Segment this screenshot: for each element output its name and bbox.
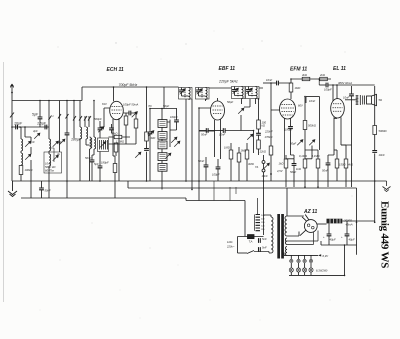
resistor 12k col B bbox=[269, 146, 273, 155]
shield box bbox=[44, 152, 62, 173]
svg-text:kΩ: kΩ bbox=[262, 124, 265, 128]
rail y85 bbox=[319, 84, 326, 86]
switch contact x67 bbox=[66, 114, 69, 119]
cap 180pF bbox=[288, 127, 293, 129]
heater rail 6,3V bbox=[284, 254, 318, 256]
svg-text:50nF: 50nF bbox=[322, 169, 328, 173]
svg-text:50pF: 50pF bbox=[227, 100, 233, 104]
rail IF y87 bbox=[82, 86, 179, 88]
svg-text:40kΩ: 40kΩ bbox=[111, 132, 117, 136]
svg-text:180pF: 180pF bbox=[285, 128, 293, 132]
svg-text:1,6pF: 1,6pF bbox=[37, 122, 47, 126]
scan specks bbox=[40, 31, 371, 321]
svg-text:EFM 11: EFM 11 bbox=[290, 67, 307, 73]
svg-text:50nF 4Ω: 50nF 4Ω bbox=[45, 165, 55, 169]
svg-text:5000Ω: 5000Ω bbox=[379, 129, 387, 133]
ground rail y181 bbox=[12, 180, 387, 182]
svg-text:5nF: 5nF bbox=[262, 237, 267, 241]
tube ECH11 bbox=[110, 101, 124, 119]
antenna coil L2 bbox=[21, 153, 23, 165]
variable cap osc bbox=[149, 118, 151, 132]
rail y79 bbox=[291, 78, 331, 80]
lamp drops bbox=[291, 255, 311, 259]
svg-text:10nF: 10nF bbox=[309, 99, 315, 103]
svg-text:AZ 11: AZ 11 bbox=[303, 209, 317, 215]
svg-text:4kΩ: 4kΩ bbox=[302, 73, 307, 77]
phono terminals bbox=[262, 161, 265, 164]
svg-text:10nF: 10nF bbox=[266, 78, 272, 82]
corner B+ bbox=[374, 86, 376, 222]
svg-text:81V: 81V bbox=[102, 102, 107, 106]
capacitor 100pF bottom bbox=[216, 167, 221, 169]
svg-text:4kΩ: 4kΩ bbox=[348, 163, 353, 167]
svg-text:1kΩ: 1kΩ bbox=[279, 162, 284, 166]
svg-text:10nF: 10nF bbox=[343, 96, 349, 100]
capacitor 10nF audio bbox=[223, 128, 225, 133]
rail between cans bbox=[209, 87, 263, 89]
svg-text:60V: 60V bbox=[298, 104, 303, 108]
PSU corner vertical bbox=[244, 201, 246, 237]
tube EFM11 bbox=[280, 99, 296, 119]
antenna switch bbox=[10, 113, 14, 118]
top right link y83 bbox=[263, 82, 277, 84]
IF can unit 3 bbox=[232, 87, 246, 105]
svg-text:10nF: 10nF bbox=[45, 162, 51, 166]
osc coil box 1 bbox=[158, 120, 167, 128]
svg-text:TA: TA bbox=[255, 165, 258, 169]
EBF pins to rails bbox=[199, 130, 215, 132]
tone cap drop x351.5 bbox=[351, 86, 353, 94]
resistor 3M bbox=[245, 150, 249, 159]
switch contacts t row bbox=[73, 116, 91, 121]
voltage selector bbox=[256, 215, 261, 231]
svg-text:4pF: 4pF bbox=[33, 129, 38, 133]
long vertical x186 bbox=[185, 99, 187, 181]
HV wire to AZ11 bbox=[287, 215, 304, 217]
header ECH 11 bbox=[107, 67, 124, 73]
resistor 4k bbox=[302, 77, 310, 80]
AZ heater loop bbox=[287, 231, 318, 245]
svg-text:125: 125 bbox=[261, 226, 265, 228]
capacitor on x146.5 bbox=[144, 149, 149, 152]
resistor r2 bbox=[134, 119, 138, 128]
svg-text:1kΩ: 1kΩ bbox=[296, 167, 301, 171]
capacitor 5pF bbox=[99, 152, 101, 167]
header EFM 11 bbox=[290, 67, 307, 73]
svg-text:500pF: 500pF bbox=[94, 117, 102, 121]
svg-text:40μF: 40μF bbox=[349, 238, 355, 242]
resistor 2k bbox=[320, 77, 328, 80]
cap 10nF right bbox=[372, 150, 377, 153]
wire y144 bbox=[109, 137, 137, 144]
ground left bbox=[8, 181, 17, 197]
tube AZ11 bbox=[303, 209, 317, 215]
IF can unit 1 bbox=[179, 88, 193, 100]
tap to y85 rail bbox=[318, 79, 320, 85]
transformer T1 primary bbox=[271, 217, 273, 253]
RF coil C1 bbox=[90, 137, 92, 149]
svg-text:100pF 50mA: 100pF 50mA bbox=[123, 103, 139, 107]
resistor 0,1M a bbox=[303, 159, 307, 168]
capacitor 50nF audio bbox=[206, 128, 208, 133]
capacitor 10pF bbox=[16, 125, 18, 130]
osc coil box 3 bbox=[158, 141, 167, 149]
padder cap 100pF bbox=[174, 120, 179, 122]
svg-text:4x: 4x bbox=[57, 152, 60, 156]
osc coil box 5 bbox=[158, 163, 167, 171]
cap 50nF rail bbox=[41, 181, 43, 188]
capacitor 50nF bottom bbox=[204, 165, 209, 167]
band switch contact c bbox=[49, 116, 52, 121]
osc switch arrows bbox=[171, 137, 177, 143]
header EL 11 bbox=[333, 66, 346, 72]
heater riser x287 bbox=[286, 188, 288, 216]
lamp bottom rail bbox=[291, 272, 311, 275]
core C bbox=[91, 138, 93, 148]
svg-text:110v: 110v bbox=[227, 240, 233, 244]
resistor 1,5M bbox=[114, 143, 118, 152]
resistor on x146.5 bbox=[145, 132, 149, 141]
svg-text:1MΩ: 1MΩ bbox=[295, 86, 301, 90]
svg-text:6,3V: 6,3V bbox=[323, 254, 329, 258]
svg-text:+: + bbox=[323, 236, 325, 239]
IF can unit 4 bbox=[246, 87, 260, 105]
svg-text:50nF: 50nF bbox=[201, 133, 207, 137]
caps to ground bbox=[86, 144, 90, 146]
svg-text:50nF: 50nF bbox=[45, 189, 51, 193]
volume pot bbox=[238, 108, 244, 114]
wire rail y127 bbox=[12, 126, 49, 128]
pot arrows EFM bbox=[297, 140, 303, 146]
capacitor 100pF tube right bbox=[129, 111, 131, 116]
svg-text:700pF 5kHz: 700pF 5kHz bbox=[119, 83, 138, 87]
right return vertical bbox=[344, 245, 346, 275]
resistor 4k cathode bbox=[344, 159, 348, 168]
Eumig label bbox=[379, 201, 391, 268]
trimmer marks bbox=[53, 141, 59, 147]
tube EL11 bbox=[331, 99, 345, 118]
svg-text:6,3V(2W): 6,3V(2W) bbox=[316, 269, 327, 273]
transformer heater winding AZ bbox=[285, 238, 287, 244]
bottom row: resistor 1k bbox=[284, 159, 288, 168]
transformer secondary HV bbox=[285, 216, 287, 236]
coupling line y96.5 bbox=[306, 96, 320, 98]
misc pin wires bbox=[284, 131, 286, 159]
filter choke bbox=[327, 219, 343, 224]
link to osc top bbox=[163, 87, 165, 109]
resistor 40k bbox=[114, 135, 122, 138]
EL screen to rail bbox=[336, 85, 338, 99]
svg-text:150: 150 bbox=[261, 222, 265, 224]
output transformer bbox=[356, 95, 358, 105]
shielded coil box bbox=[98, 138, 109, 152]
transformer core bbox=[277, 214, 280, 259]
cap 50nF grid bbox=[109, 128, 114, 130]
osc coil box 2 bbox=[158, 132, 167, 140]
vertical x40 cap 10nF bbox=[39, 101, 41, 118]
transformer heater winding 6,3V bbox=[286, 247, 288, 256]
vertical x146.5 bbox=[146, 87, 148, 181]
RF coil B2 bbox=[86, 127, 88, 139]
vertical x263.5 to PSU bbox=[263, 155, 265, 235]
resistor 1M a bbox=[229, 150, 233, 159]
svg-text:220v~: 220v~ bbox=[226, 245, 235, 249]
svg-text:5pF: 5pF bbox=[94, 162, 99, 166]
resistor 5000 bbox=[373, 126, 377, 135]
tube EBF11 bbox=[211, 101, 225, 120]
svg-text:0,1MΩ: 0,1MΩ bbox=[299, 154, 307, 158]
trimmer mid arrow bbox=[34, 133, 40, 139]
svg-text:100pF: 100pF bbox=[170, 115, 178, 119]
IF can unit 2 bbox=[196, 88, 210, 102]
antenna coil L1 bbox=[20, 127, 22, 139]
svg-text:4,5V: 4,5V bbox=[277, 169, 283, 173]
svg-text:10nF: 10nF bbox=[219, 133, 225, 137]
svg-text:180pF: 180pF bbox=[71, 138, 82, 142]
svg-text:220nF: 220nF bbox=[264, 130, 273, 134]
antenna bbox=[10, 84, 13, 181]
svg-text:3MΩ: 3MΩ bbox=[248, 162, 254, 166]
switch mains bbox=[247, 251, 254, 254]
rail3 y198 bbox=[21, 198, 245, 201]
svg-text:Eumig 449 WS: Eumig 449 WS bbox=[379, 201, 391, 268]
svg-text:40μF: 40μF bbox=[330, 238, 336, 242]
wire y158.8 bbox=[286, 158, 294, 160]
electrolytic cap 4uF bbox=[328, 223, 330, 234]
rail2 y188 bbox=[128, 187, 357, 189]
osc coil box 4 bbox=[158, 153, 167, 161]
grid wire EBF bbox=[199, 108, 211, 130]
junction dot antenna bbox=[11, 92, 13, 94]
resistor r1 bbox=[124, 116, 128, 125]
svg-text:7Ω: 7Ω bbox=[148, 104, 152, 108]
svg-text:ECH 11: ECH 11 bbox=[107, 67, 124, 73]
capacitor 1,6pF bbox=[45, 125, 47, 130]
dial lamps row bbox=[289, 268, 293, 272]
resistor 1M b bbox=[237, 153, 241, 162]
switch contact x59 bbox=[58, 114, 61, 119]
EFM grid wire bbox=[271, 83, 280, 181]
svg-text:10pF: 10pF bbox=[14, 122, 23, 126]
svg-text:5nF: 5nF bbox=[262, 246, 267, 250]
osc coil A2 bbox=[49, 154, 51, 166]
resistor cathode bbox=[113, 164, 117, 173]
fuse bbox=[248, 235, 255, 239]
svg-text:110: 110 bbox=[261, 229, 265, 231]
svg-text:T,A: T,A bbox=[249, 240, 253, 244]
resistor 1M above EFM bbox=[289, 83, 293, 92]
label cluster bbox=[45, 162, 51, 166]
svg-text:2kΩ: 2kΩ bbox=[319, 73, 325, 77]
svg-text:5Ω: 5Ω bbox=[379, 98, 383, 102]
resistor column x258.5 bbox=[257, 120, 261, 129]
small lamps row bbox=[290, 259, 293, 262]
svg-text:220pF 5kHz: 220pF 5kHz bbox=[218, 80, 238, 84]
wire rail y100.5 bbox=[12, 100, 82, 102]
rail verticals bbox=[198, 130, 200, 201]
resistor 100kOhm bbox=[19, 166, 23, 175]
scan edge line left bbox=[3, 62, 5, 302]
svg-text:0,1MΩ: 0,1MΩ bbox=[312, 154, 320, 158]
audio line y130.5 bbox=[199, 130, 206, 132]
EL grid drop bbox=[332, 85, 334, 101]
trimmer arrow L2 bbox=[25, 154, 31, 160]
svg-text:50nF: 50nF bbox=[85, 156, 91, 160]
trimmer arrow L1 bbox=[25, 141, 31, 147]
header EBF 11 bbox=[219, 66, 236, 72]
mains cord bbox=[227, 240, 233, 244]
svg-text:c: c bbox=[53, 115, 55, 118]
svg-text:50pF: 50pF bbox=[290, 142, 296, 146]
svg-text:12kΩ: 12kΩ bbox=[260, 150, 266, 154]
svg-text:5pF: 5pF bbox=[32, 113, 39, 117]
svg-text:EL 11: EL 11 bbox=[333, 66, 346, 72]
riser x82 bbox=[81, 87, 83, 101]
cap 50nF bbox=[292, 164, 297, 166]
pot wiper arrow bbox=[247, 134, 253, 140]
RF coil C2 bbox=[94, 137, 96, 149]
resistor 0,1M b bbox=[316, 159, 320, 168]
svg-text:1MΩ: 1MΩ bbox=[224, 146, 230, 150]
ground right bbox=[383, 181, 391, 192]
RF coil B1 bbox=[80, 127, 82, 139]
svg-text:50pF: 50pF bbox=[163, 104, 169, 108]
oscillator chain top bbox=[150, 108, 177, 110]
caps 5nF psu bbox=[259, 238, 261, 243]
cap+arrow 180pF bbox=[66, 101, 68, 134]
svg-text:EBF 11: EBF 11 bbox=[219, 66, 236, 72]
vertical x356.5 bbox=[356, 188, 358, 255]
long vertical x192 bbox=[191, 99, 193, 190]
svg-text:180pF: 180pF bbox=[101, 161, 109, 165]
osc coil A1 bbox=[49, 139, 51, 151]
svg-text:100pF: 100pF bbox=[324, 88, 332, 92]
svg-text:2000Ω: 2000Ω bbox=[343, 219, 352, 223]
svg-text:500kΩ: 500kΩ bbox=[308, 124, 316, 128]
variable capacitor 500pF bbox=[99, 121, 101, 128]
electrolytic cap 8uF bbox=[346, 221, 348, 234]
svg-text:2pF: 2pF bbox=[29, 140, 35, 144]
svg-text:100pF: 100pF bbox=[212, 173, 220, 177]
svg-text:60-75m: 60-75m bbox=[45, 169, 55, 173]
resistor 150 bbox=[335, 159, 339, 168]
cap 50nF b bbox=[326, 163, 331, 165]
EL plate to transformer bbox=[345, 99, 357, 101]
svg-text:380V 32mA: 380V 32mA bbox=[338, 81, 352, 85]
svg-text:10nF: 10nF bbox=[379, 153, 385, 157]
svg-text:220: 220 bbox=[261, 219, 265, 221]
resistor 500k bbox=[303, 121, 307, 130]
speaker bbox=[367, 96, 372, 104]
svg-text:+: + bbox=[341, 236, 343, 239]
grid wire left bbox=[100, 108, 110, 127]
tube pins ECH bbox=[113, 118, 119, 181]
svg-text:10nF: 10nF bbox=[262, 174, 268, 178]
